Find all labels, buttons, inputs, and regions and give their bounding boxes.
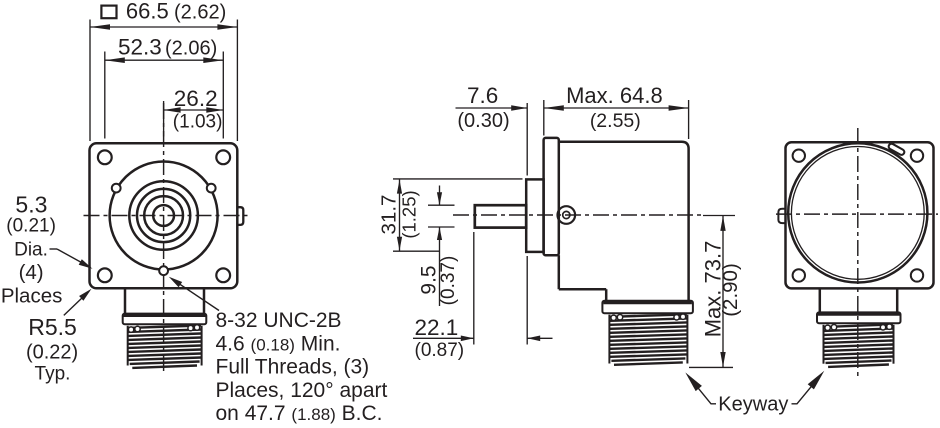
svg-text:Places: Places xyxy=(1,284,63,307)
svg-text:Places, 120° apart: Places, 120° apart xyxy=(216,379,388,402)
svg-text:Typ.: Typ. xyxy=(35,364,71,385)
svg-text:(1.03): (1.03) xyxy=(173,112,223,133)
svg-text:Full Threads, (3): Full Threads, (3) xyxy=(216,356,370,379)
svg-text:(0.87): (0.87) xyxy=(415,340,465,361)
svg-text:Dia.: Dia. xyxy=(14,240,48,261)
svg-text:(1.25): (1.25) xyxy=(399,190,420,238)
svg-text:22.1: 22.1 xyxy=(415,315,459,340)
svg-text:(4): (4) xyxy=(19,261,44,284)
svg-text:26.2: 26.2 xyxy=(174,86,218,111)
svg-text:(0.30): (0.30) xyxy=(457,110,509,132)
svg-text:(0.22): (0.22) xyxy=(26,341,78,363)
svg-text:(2.55): (2.55) xyxy=(590,110,641,132)
svg-text:7.6: 7.6 xyxy=(467,83,498,108)
svg-text:on 47.7 (1.88) B.C.: on 47.7 (1.88) B.C. xyxy=(216,402,383,425)
svg-text:(2.62): (2.62) xyxy=(174,1,226,23)
svg-text:(0.21): (0.21) xyxy=(6,216,56,237)
svg-text:(2.90): (2.90) xyxy=(719,263,742,317)
svg-text:R5.5: R5.5 xyxy=(28,314,77,340)
svg-text:8-32 UNC-2B: 8-32 UNC-2B xyxy=(216,309,342,332)
svg-text:(2.06): (2.06) xyxy=(165,38,217,60)
svg-text:66.5: 66.5 xyxy=(126,0,169,23)
svg-text:52.3: 52.3 xyxy=(118,35,162,60)
svg-text:31.7: 31.7 xyxy=(378,195,401,235)
svg-text:Keyway: Keyway xyxy=(718,394,788,416)
svg-text:4.6 (0.18) Min.: 4.6 (0.18) Min. xyxy=(216,332,341,355)
svg-text:5.3: 5.3 xyxy=(15,191,47,217)
svg-text:(0.37): (0.37) xyxy=(438,256,459,306)
svg-text:Max. 64.8: Max. 64.8 xyxy=(566,83,663,108)
